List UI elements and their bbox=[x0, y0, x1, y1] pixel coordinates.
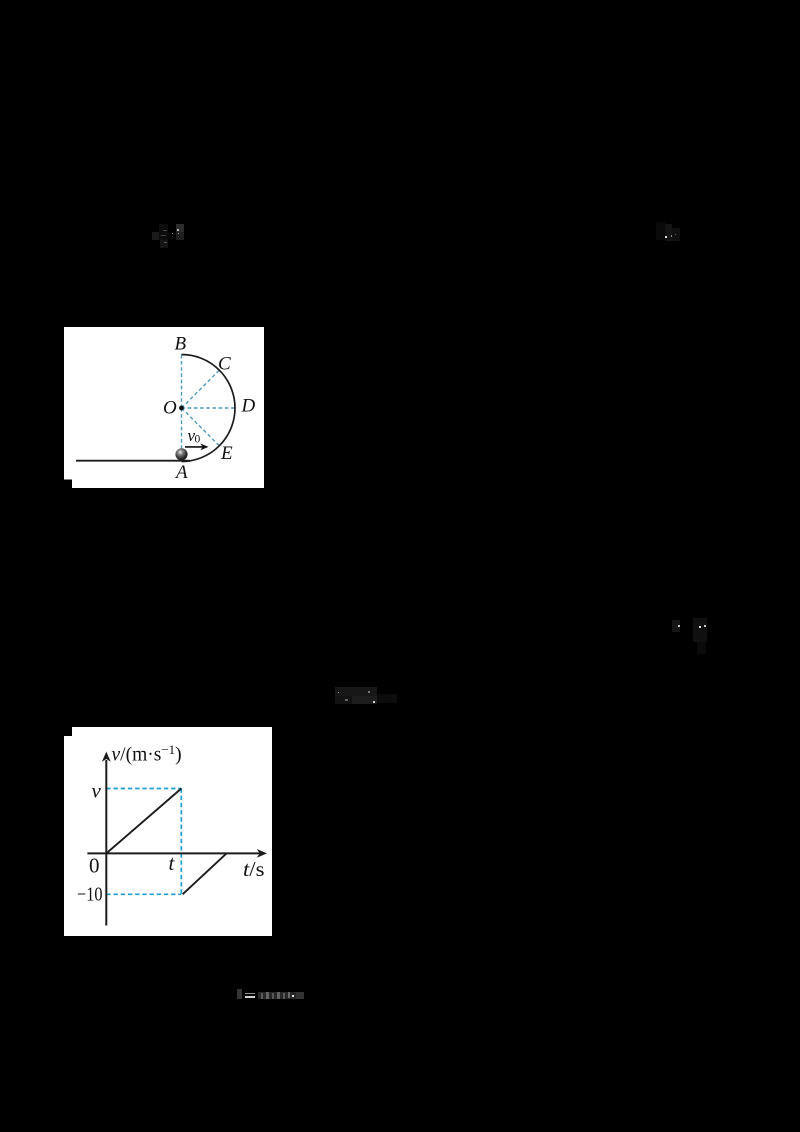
svg-text:O: O bbox=[163, 398, 177, 419]
svg-text:A: A bbox=[174, 462, 188, 483]
svg-text:B: B bbox=[175, 334, 187, 355]
v0 arrow bbox=[185, 446, 203, 448]
v-t line 2 bbox=[183, 853, 227, 894]
faint mark cluster A (left header) bbox=[176, 224, 184, 232]
svg-text:C: C bbox=[218, 354, 231, 375]
x axis bbox=[87, 852, 260, 854]
dashed radius O-D bbox=[182, 407, 236, 409]
faint mark cluster B (right header) bbox=[656, 222, 665, 240]
faint mark cluster C (mid right) bbox=[672, 620, 680, 632]
track line bbox=[76, 460, 190, 462]
notch top-left bbox=[64, 727, 72, 736]
svg-text:D: D bbox=[241, 396, 256, 417]
dashed -10 horizontal bbox=[106, 893, 181, 895]
faint mark cluster E (bottom equation) bbox=[237, 989, 242, 999]
svg-text:−10: −10 bbox=[77, 883, 103, 905]
faint mark cluster D (mid) bbox=[335, 687, 377, 696]
dashed radius O-C bbox=[182, 370, 220, 408]
v-t line 1 bbox=[106, 789, 181, 854]
notch bottom-left bbox=[64, 480, 72, 489]
figure 2: v-t graph bbox=[64, 727, 272, 936]
svg-text:0: 0 bbox=[195, 434, 201, 446]
dashed radius O-B bbox=[181, 355, 183, 409]
semicircular arc B..A bbox=[182, 355, 235, 462]
dashed v horizontal bbox=[106, 788, 181, 790]
center dot O bbox=[179, 406, 184, 411]
svg-text:t/s: t/s bbox=[243, 857, 265, 881]
dashed radius O-E bbox=[182, 408, 220, 446]
svg-text:E: E bbox=[220, 443, 233, 464]
figure 1: ball on track with semicircle OBCDE bbox=[64, 327, 264, 488]
dashed t vertical bbox=[180, 789, 182, 895]
svg-text:0: 0 bbox=[89, 854, 100, 878]
dashed radius O-A bbox=[181, 408, 183, 454]
svg-text:v: v bbox=[92, 779, 102, 803]
y axis bbox=[105, 760, 107, 926]
